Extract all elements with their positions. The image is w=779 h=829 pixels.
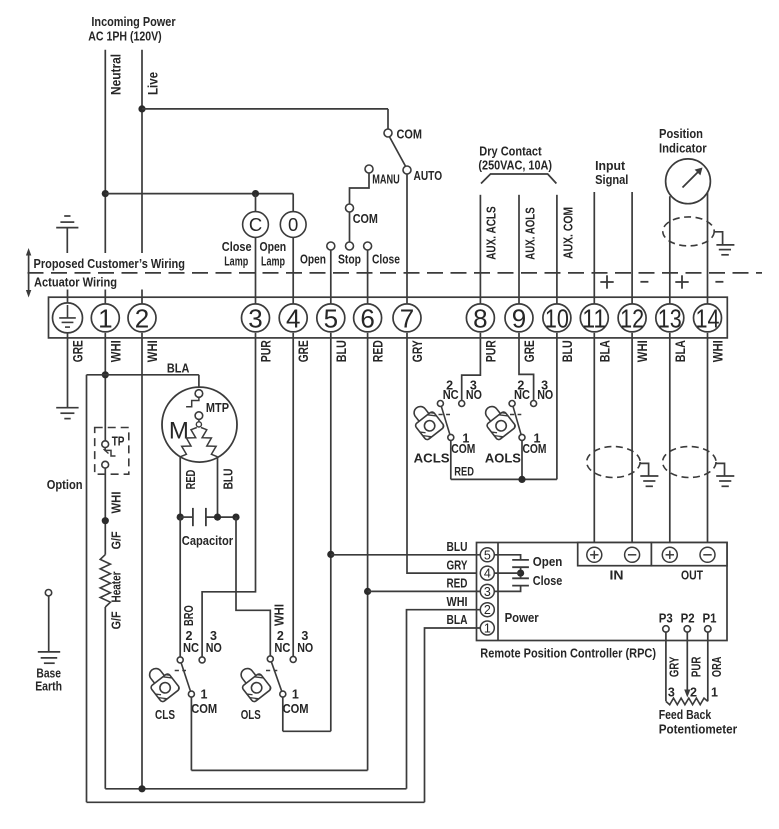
svg-text:NC: NC (274, 641, 290, 655)
thermal protector MTP inside motor (186, 390, 229, 427)
node: junction on heater line (102, 517, 109, 524)
svg-text:GRY: GRY (410, 340, 425, 362)
svg-text:WHI: WHI (635, 340, 650, 362)
limit switch CLS linkage (175, 670, 186, 672)
wire: BLA to RPC 1 (425, 613, 481, 803)
aux switch AOLS cam icon (478, 401, 521, 465)
RPC terminal 2 (480, 603, 494, 618)
potentiometer: feedback pot element (666, 698, 708, 705)
limit switch OLS cam icon (234, 663, 272, 722)
terminal 6 (354, 303, 382, 333)
RPC terminal P3 (659, 612, 673, 633)
svg-text:Dry Contact: Dry Contact (479, 144, 542, 159)
thermostat TP contacts (102, 441, 116, 468)
ground: output shield earth (716, 463, 734, 486)
wire: OLS COM to BLU rail (bottom) (283, 730, 331, 732)
terminal 1 (91, 303, 119, 333)
terminal GND (earth terminal) (53, 303, 83, 333)
wire: P1 ORA to potentiometer pin 1 (708, 632, 724, 701)
svg-text:ACLS: ACLS (414, 451, 450, 466)
svg-text:Capacitor: Capacitor (182, 533, 233, 548)
svg-text:Lamp: Lamp (261, 254, 285, 268)
boundary: customer/actuator dashed separation line (28, 272, 763, 274)
RPC terminal P1 (703, 612, 717, 633)
svg-text:12: 12 (620, 303, 644, 333)
node: RED junction terminal 6 line (364, 588, 371, 595)
wire: terminal 2 down to WHI bottom rail (141, 333, 143, 789)
label: wire color RED terminal 6 (371, 340, 386, 362)
svg-text:WHI: WHI (145, 340, 160, 362)
wire: terminal 11 down to IN + (593, 333, 595, 547)
svg-text:COM: COM (191, 702, 217, 716)
switch S1 lever COM to AUTO (389, 137, 405, 167)
wire: terminal 5 BLU down to OLS COM rail (330, 333, 332, 731)
wire: terminal 4 GRE down to OLS NO (292, 333, 294, 657)
wire: terminal 9 down to AOLS NO (519, 333, 534, 401)
wire: capacitor to CLS NC, BRO (180, 517, 196, 657)
svg-text:Open: Open (533, 554, 563, 569)
terminal 12 (618, 303, 646, 333)
svg-text:1: 1 (98, 303, 112, 333)
svg-text:9: 9 (512, 303, 526, 333)
label: wire color BLA terminal 11 (597, 340, 612, 362)
wire: CLS COM down to rail (190, 697, 192, 770)
terminal OUT - (700, 547, 715, 562)
svg-text:M: M (169, 418, 189, 445)
wire: ground terminal to actuator earth (67, 333, 69, 407)
terminal strip box (49, 297, 728, 338)
motor winding left leg (180, 428, 197, 457)
svg-text:NO: NO (297, 641, 313, 655)
svg-text:3: 3 (248, 303, 262, 333)
svg-text:Stop: Stop (338, 253, 361, 267)
terminal 13 (656, 303, 684, 333)
svg-text:COM: COM (397, 127, 423, 142)
RPC terminal 4 (480, 566, 494, 581)
svg-text:Earth: Earth (35, 679, 62, 694)
svg-text:CLS: CLS (155, 707, 175, 722)
svg-text:OLS: OLS (241, 707, 261, 722)
svg-text:Close: Close (222, 240, 252, 254)
terminal 7 (393, 303, 421, 333)
aux switch AOLS linkage (510, 414, 521, 416)
node: BLU junction terminal 5 line (327, 551, 334, 558)
wire: Close Lamp down to terminal 3 (255, 237, 257, 303)
wire: WHI to RPC 2 (407, 595, 481, 789)
node: terminal 2 junction on WHI rail (138, 785, 145, 792)
terminal IN + (587, 547, 602, 562)
svg-text:G/F: G/F (108, 611, 123, 629)
svg-text:GRE: GRE (296, 340, 311, 362)
svg-text:Neutral: Neutral (108, 54, 123, 95)
wire: Close terminal down to terminal 6 (367, 250, 369, 303)
terminal 5 (317, 303, 345, 333)
wire: Neutral line from incoming power down to terminal 1 (105, 50, 123, 303)
label: wire color GRE terminal 9 (522, 340, 537, 362)
svg-text:Power: Power (505, 610, 539, 625)
label: wire color BLU terminal 10 (560, 340, 575, 362)
wire: AUX. AOLS lead to terminal 9 (519, 195, 537, 304)
wire: input signal + to terminal 11 (593, 192, 595, 303)
label: - polarity terminal 14 (715, 281, 723, 283)
svg-text:Proposed Customer’s Wiring: Proposed Customer’s Wiring (34, 256, 186, 271)
svg-text:5: 5 (484, 548, 491, 562)
svg-text:4: 4 (484, 567, 491, 581)
svg-text:Option: Option (47, 477, 83, 492)
svg-text:TP: TP (112, 435, 125, 449)
bracket over aux terminals (481, 174, 556, 184)
svg-text:NO: NO (206, 641, 222, 655)
label: wire color PUR terminal 3 (259, 340, 274, 362)
svg-text:PUR: PUR (690, 657, 704, 678)
terminal 2 (128, 303, 156, 333)
svg-text:IN: IN (610, 567, 624, 582)
label: wire color PUR terminal 8 (483, 340, 498, 362)
svg-text:Position: Position (659, 126, 703, 141)
label: wire color BLA terminal 13 (673, 340, 688, 362)
svg-text:COM: COM (523, 442, 547, 456)
wire: P3 GRY to potentiometer pin 3 (666, 632, 682, 701)
title: Incoming Power AC 1PH (120V) (88, 14, 175, 43)
svg-text:(250VAC, 10A): (250VAC, 10A) (478, 158, 552, 173)
svg-text:WHI: WHI (447, 595, 468, 609)
svg-text:Feed Back: Feed Back (659, 707, 712, 722)
wire: capacitor to OLS NC, WHI (236, 517, 286, 656)
label: Option (47, 477, 83, 492)
label: wire color GRE terminal g (71, 340, 86, 362)
wire: GRY label RPC 4 (447, 558, 469, 572)
label: wire color GRY terminal 7 (410, 340, 425, 362)
wire: TP to heater, WHI (105, 468, 123, 554)
label: Input Signal (595, 158, 628, 187)
svg-text:11: 11 (582, 303, 606, 333)
wire: WHI bottom rail heater/terminal2 to RPC 2 (105, 788, 406, 790)
svg-text:14: 14 (696, 303, 720, 333)
svg-text:1: 1 (292, 688, 299, 702)
label: Dry Contact (250VAC, 10A) (478, 144, 552, 173)
RPC (Remote Position Controller) box (477, 543, 728, 641)
aux switch ACLS contacts (437, 379, 482, 457)
svg-text:OUT: OUT (681, 567, 703, 582)
svg-text:GRY: GRY (667, 656, 681, 677)
svg-text:BLU: BLU (447, 540, 468, 554)
svg-text:4: 4 (286, 303, 300, 333)
svg-text:RED: RED (447, 576, 468, 590)
wire: manual COM down to Stop button (349, 212, 351, 242)
wire: BLA return down left side (86, 375, 88, 803)
switch S1 selector COM terminal (384, 127, 422, 142)
wire: BLA motor feed (87, 362, 199, 390)
wire: gauge + lead to terminal 13 (669, 196, 671, 303)
terminal 9 (505, 303, 533, 333)
wire: RED to RPC 3 (368, 576, 481, 591)
wire: CLS COM to RED rail (bottom) (191, 769, 367, 771)
svg-text:0: 0 (288, 214, 298, 235)
ground: gauge shield earth (714, 232, 734, 255)
RPC terminal 5 (480, 548, 494, 563)
svg-text:Indicator: Indicator (659, 140, 707, 155)
svg-text:2: 2 (484, 603, 491, 617)
svg-text:Heater: Heater (108, 572, 123, 603)
wire: BLA bottom rail to RPC 1 (87, 801, 425, 803)
svg-text:AC 1PH (120V): AC 1PH (120V) (88, 28, 161, 43)
node: Open pushbutton terminal (300, 242, 335, 267)
label: wire color BLU terminal 5 (334, 340, 349, 362)
svg-text:Close: Close (533, 573, 563, 588)
thermostat TP (option) dashed box (95, 428, 129, 475)
svg-text:BLU: BLU (334, 340, 349, 362)
svg-text:AUX. COM: AUX. COM (560, 207, 575, 259)
shield: dashed oval around gauge leads (663, 217, 714, 246)
node: RPC pushbutton common junction (494, 570, 524, 577)
svg-text:RED: RED (183, 470, 198, 490)
svg-text:GRE: GRE (522, 340, 537, 362)
svg-text:AUX. ACLS: AUX. ACLS (484, 206, 499, 260)
svg-text:1: 1 (711, 686, 718, 700)
label: Actuator Wiring (34, 275, 117, 290)
svg-text:Signal: Signal (595, 172, 628, 187)
limit switch CLS cam icon (142, 663, 180, 722)
wire: AUX. ACLS lead to terminal 8 (480, 195, 498, 304)
limit switch OLS linkage (266, 670, 277, 672)
svg-text:NC: NC (183, 641, 199, 655)
svg-text:NO: NO (537, 388, 553, 402)
svg-text:Remote Position Controller (RP: Remote Position Controller (RPC) (480, 646, 656, 661)
svg-text:Input: Input (595, 158, 626, 173)
IN terminal box (578, 543, 652, 583)
label: - polarity terminal 12 (640, 281, 648, 283)
terminal 4 (279, 303, 307, 333)
label: wire color WHI terminal 14 (711, 340, 726, 362)
svg-text:COM: COM (283, 702, 309, 716)
svg-text:AOLS: AOLS (485, 451, 521, 466)
svg-text:5: 5 (324, 303, 338, 333)
wire: terminal 7 GRY down to RPC terminal 4 (407, 333, 480, 573)
label: wire color WHI terminal 2 (145, 340, 160, 362)
terminal 8 (466, 303, 494, 333)
svg-text:Actuator Wiring: Actuator Wiring (34, 275, 117, 290)
svg-text:Potentiometer: Potentiometer (659, 722, 738, 737)
svg-text:ORA: ORA (710, 657, 724, 678)
wire: motor RED lead to capacitor (180, 457, 198, 517)
wire: P2 PUR to potentiometer wiper (684, 632, 704, 700)
svg-text:AUTO: AUTO (414, 168, 443, 183)
terminal 3 (242, 303, 270, 333)
motor winding right leg (201, 428, 218, 457)
label: wire color GRE terminal 4 (296, 340, 311, 362)
meter: position indicator gauge (666, 159, 711, 204)
svg-text:WHI: WHI (271, 604, 286, 626)
label: + polarity terminal 13 (675, 275, 688, 288)
node: BLA junction on terminal 1 line (102, 371, 109, 378)
svg-text:G/F: G/F (108, 531, 123, 549)
wire: terminal 1 down through junction (104, 333, 106, 441)
svg-text:NC: NC (514, 388, 530, 402)
capacitor C1 (177, 508, 240, 548)
wire: AUTO contact down to terminal 7 (406, 174, 408, 303)
label: Power (505, 610, 539, 625)
ground: input shield earth (640, 463, 658, 486)
limit switch OLS contacts (267, 629, 313, 716)
wire: drop to Close Lamp (255, 194, 257, 212)
svg-text:NO: NO (466, 388, 482, 402)
svg-text:WHI: WHI (108, 492, 123, 514)
wire: Open terminal down to terminal 5 (330, 250, 332, 303)
svg-text:Incoming Power: Incoming Power (91, 14, 175, 29)
svg-text:BLA: BLA (597, 340, 612, 362)
svg-text:Open: Open (259, 240, 286, 254)
label: wire color WHI terminal 1 (108, 340, 123, 362)
wire: terminal 3 PUR down to CLS NO (202, 333, 255, 657)
RPC terminal P2 (681, 612, 695, 633)
lamp C (Close Lamp) (222, 212, 269, 269)
svg-text:Open: Open (300, 253, 326, 267)
terminal 14 (694, 303, 722, 333)
wire: ACLS COM / AOLS COM rail to terminal 10, RED (451, 333, 557, 480)
terminal IN - (625, 547, 640, 562)
RPC terminal 3 (480, 584, 494, 599)
node: Stop pushbutton terminal (338, 242, 361, 267)
wire: Open Lamp down to terminal 4 (292, 237, 294, 303)
node: AOLS COM junction (518, 476, 525, 483)
wire: terminal 14 down to OUT - (707, 333, 709, 547)
RPC terminal 1 (480, 621, 494, 636)
svg-text:COM: COM (353, 211, 378, 226)
OUT terminal box (651, 543, 727, 583)
wire: OLS COM down to rail (282, 697, 284, 731)
svg-text:BLA: BLA (447, 613, 468, 627)
svg-text:8: 8 (473, 303, 487, 333)
svg-text:NC: NC (443, 388, 459, 402)
terminal OUT + (662, 547, 677, 562)
wire: AUX. COM lead to terminal 10 (557, 195, 575, 304)
svg-text:P1: P1 (703, 612, 717, 626)
svg-text:GRY: GRY (447, 558, 469, 572)
svg-text:P2: P2 (681, 612, 695, 626)
svg-text:PUR: PUR (483, 340, 498, 362)
ground: actuator earth (56, 408, 78, 419)
limit switch CLS contacts (177, 629, 222, 716)
aux switch AOLS contacts (509, 379, 553, 457)
switch S1 AUTO contact (403, 166, 442, 183)
svg-text:2: 2 (135, 303, 149, 333)
svg-text:PUR: PUR (259, 340, 274, 362)
svg-text:WHI: WHI (108, 340, 123, 362)
label: Proposed Customer&#39;s Wiring (34, 256, 186, 271)
motor M1 (162, 387, 237, 462)
node: base earth terminal (45, 590, 51, 596)
terminal 11 (580, 303, 608, 333)
lamp O (Open Lamp) (259, 212, 306, 269)
svg-text:Close: Close (372, 253, 400, 267)
ground: customer earth above boundary (56, 216, 78, 253)
wire: gauge - lead to terminal 14 (707, 192, 709, 303)
node: junction at Close Lamp takeoff (252, 190, 259, 197)
wire: Neutral to lamp feeders (105, 194, 293, 212)
svg-text:Live: Live (146, 71, 161, 95)
svg-text:BRO: BRO (181, 605, 196, 626)
svg-text:C: C (249, 214, 262, 235)
svg-text:RED: RED (454, 465, 474, 479)
aux switch ACLS linkage (439, 414, 451, 416)
node: junction on Live line feeding selector switch (138, 105, 145, 112)
label: Feed Back Potentiometer (659, 707, 738, 737)
label: + polarity terminal 11 (600, 275, 613, 288)
svg-text:AUX. AOLS: AUX. AOLS (522, 207, 537, 260)
pushbutton: RPC Open (494, 554, 562, 570)
node: manual COM terminal (346, 204, 378, 226)
svg-text:3: 3 (484, 585, 491, 599)
resistor: G/F Heater (100, 531, 123, 629)
wire: heater down to WHI bottom rail (104, 607, 106, 789)
wire: MANU contact to manual COM (350, 173, 370, 204)
svg-text:BLU: BLU (560, 340, 575, 362)
svg-text:RED: RED (371, 340, 386, 362)
wire: terminal 8 down to ACLS NO (462, 333, 481, 401)
svg-text:COM: COM (451, 442, 475, 456)
ground: Base Earth (35, 596, 62, 694)
svg-text:BLA: BLA (673, 340, 688, 362)
svg-text:GRE: GRE (71, 340, 86, 362)
aux switch ACLS cam icon (407, 401, 450, 465)
node: Close pushbutton terminal (364, 242, 400, 267)
wire: BLU to RPC 5 (331, 540, 481, 555)
terminal 10 (543, 303, 571, 333)
label: Position Indicator (659, 126, 707, 155)
wire: Live line from incoming power down to terminal 2 (142, 50, 161, 303)
svg-text:1: 1 (484, 622, 491, 636)
wire: motor BLU lead to capacitor (218, 457, 236, 517)
node: junction on Neutral line feeding lamps (102, 190, 109, 197)
svg-text:7: 7 (400, 303, 414, 333)
svg-text:BLU: BLU (221, 469, 236, 490)
wire: earth stem to ground terminal (67, 290, 69, 303)
svg-text:1: 1 (201, 688, 208, 702)
svg-text:13: 13 (658, 303, 682, 333)
shield: dashed oval around output wires (663, 447, 716, 478)
label: wire color WHI terminal 12 (635, 340, 650, 362)
wire: input signal - to terminal 12 (631, 192, 633, 303)
wire: terminal 12 down to IN - (631, 333, 633, 547)
svg-text:MTP: MTP (206, 401, 229, 415)
shield: dashed oval around input wires (587, 447, 640, 478)
svg-text:P3: P3 (659, 612, 673, 626)
wire: terminal 13 down to OUT + (669, 333, 671, 547)
svg-text:BLA: BLA (167, 362, 190, 376)
boundary double arrow (26, 248, 31, 298)
wire: terminal 6 RED down to CLS COM rail (367, 333, 369, 771)
svg-text:WHI: WHI (711, 340, 726, 362)
svg-text:10: 10 (545, 303, 569, 333)
svg-text:6: 6 (360, 303, 374, 333)
pushbutton: RPC Close (494, 573, 562, 591)
svg-text:MANU: MANU (372, 173, 400, 187)
label: Remote Position Controller (RPC) (480, 646, 656, 661)
wire: Live to selector COM (142, 109, 388, 129)
svg-text:Lamp: Lamp (224, 254, 248, 268)
switch S1 MANU contact (365, 165, 400, 187)
